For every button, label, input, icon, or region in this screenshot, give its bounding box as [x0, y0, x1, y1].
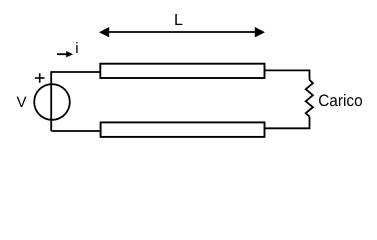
wire: line top to load — [265, 70, 310, 79]
transmission line top conductor — [100, 64, 264, 78]
dimension arrow L (double-headed) — [99, 27, 265, 37]
svg-text:L: L — [174, 12, 183, 29]
wire: load to line bottom — [265, 117, 310, 129]
plus sign — [35, 73, 45, 83]
svg-text:Carico: Carico — [318, 92, 363, 110]
wire: source bottom to line — [51, 130, 100, 132]
resistor load (zigzag) — [306, 80, 313, 117]
svg-text:V: V — [17, 94, 27, 111]
svg-text:i: i — [75, 40, 78, 57]
voltage source V1 (circle) — [34, 84, 70, 120]
wire: source top to line — [51, 72, 100, 131]
current arrow i — [57, 51, 73, 57]
transmission line bottom conductor — [101, 122, 265, 136]
